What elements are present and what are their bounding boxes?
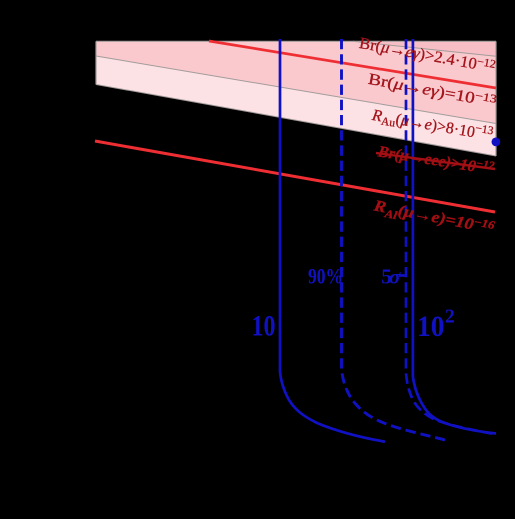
gray left edge (95, 41, 97, 84)
gray line B (96, 85, 496, 157)
gray top edge (96, 40, 496, 42)
svg-text:σ: σ (389, 264, 402, 288)
strikethrough line (376, 153, 495, 169)
band R_Au light pink (between line A and line B) (96, 56, 496, 156)
gray line A (96, 56, 496, 124)
gray right edge (495, 41, 497, 156)
blue dot (492, 138, 501, 147)
blue dashed curve 5sigma (406, 39, 494, 434)
svg-text:10: 10 (252, 310, 276, 343)
blue leader tick for 5sigma (399, 274, 406, 277)
band dark sliver (between top edge and line C) (353, 41, 496, 56)
svg-text:10: 10 (417, 310, 445, 343)
blue solid curve 10^2 (413, 39, 496, 434)
svg-text:2: 2 (445, 306, 455, 327)
red line R_Al(mu->e)=1e-16 (95, 141, 495, 212)
blue dashed curve 90% (342, 39, 446, 440)
gray line C (353, 41, 496, 56)
svg-text:90%: 90% (308, 263, 343, 288)
red line Br(mu->e gamma)=2.4e-12 (209, 41, 496, 88)
blue solid curve 10 (280, 39, 385, 442)
band MEG medium pink (between top edge and line A) (96, 41, 496, 123)
